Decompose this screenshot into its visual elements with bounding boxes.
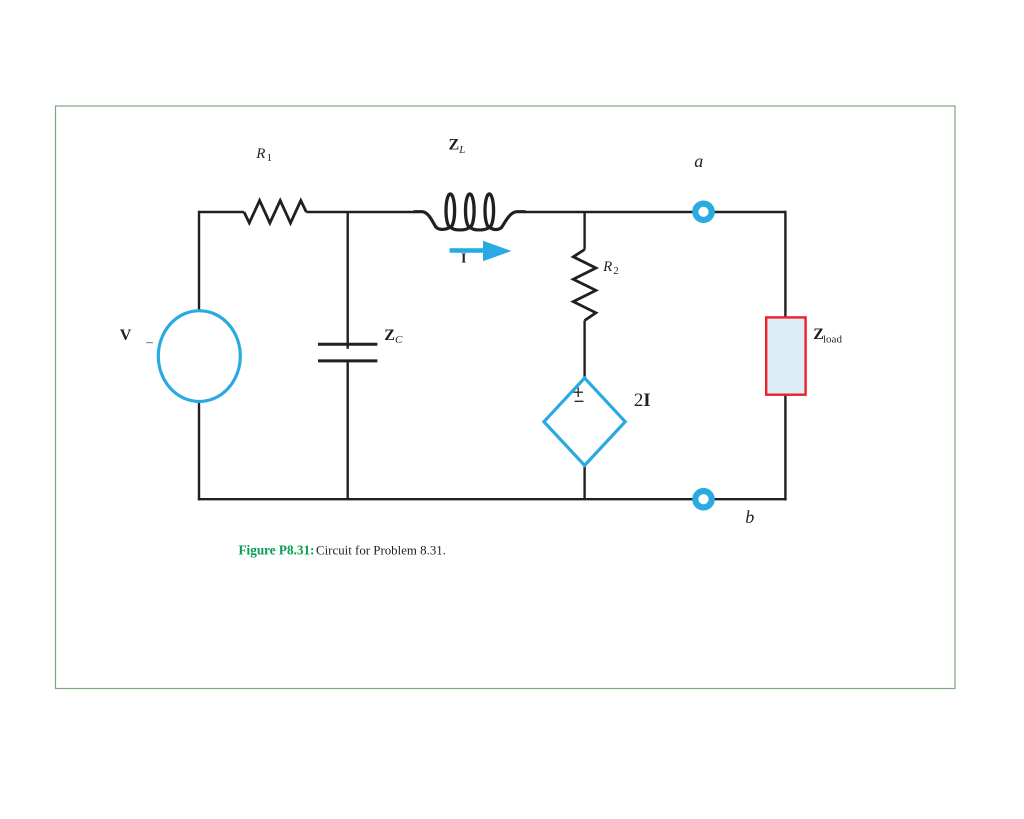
svg-text:a: a: [694, 151, 703, 171]
svg-text:b: b: [745, 507, 754, 527]
svg-text:I: I: [643, 390, 650, 411]
svg-text:V: V: [120, 327, 132, 344]
svg-text:2: 2: [613, 265, 619, 277]
svg-text:Circuit for Problem 8.31.: Circuit for Problem 8.31.: [316, 544, 446, 558]
svg-text:Z: Z: [449, 137, 460, 154]
svg-text:–: –: [145, 334, 153, 349]
svg-text:L: L: [458, 144, 465, 156]
svg-text:Z: Z: [384, 327, 395, 344]
svg-text:C: C: [395, 334, 403, 346]
svg-text:R: R: [602, 259, 612, 275]
svg-text:I: I: [461, 252, 466, 267]
svg-text:Figure P8.31:: Figure P8.31:: [239, 543, 315, 558]
svg-text:2: 2: [634, 390, 644, 411]
svg-text:1: 1: [267, 152, 273, 164]
svg-text:R: R: [255, 146, 265, 162]
svg-text:load: load: [823, 333, 842, 345]
